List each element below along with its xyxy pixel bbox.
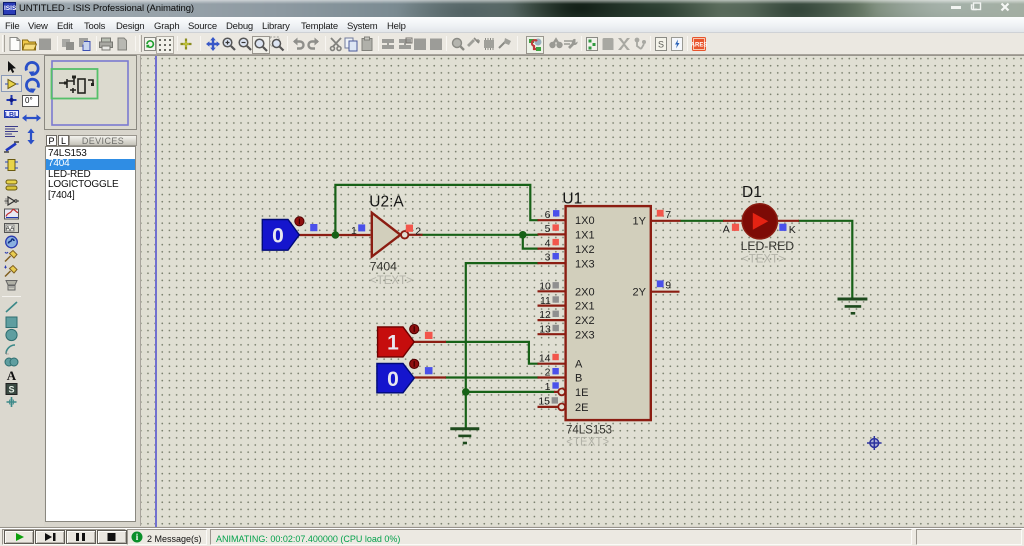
svg-text:U2:A: U2:A: [369, 193, 404, 210]
svg-text:1Y: 1Y: [633, 216, 647, 228]
svg-text:15: 15: [538, 396, 550, 408]
svg-text:4: 4: [545, 237, 551, 249]
svg-text:1X0: 1X0: [575, 215, 595, 227]
svg-text:<TEXT>: <TEXT>: [742, 254, 785, 266]
svg-text:<TEXT>: <TEXT>: [566, 436, 609, 448]
svg-text:2: 2: [545, 367, 551, 379]
svg-text:1: 1: [387, 332, 399, 355]
svg-text:A: A: [7, 368, 17, 382]
svg-text:2Y: 2Y: [633, 287, 647, 299]
svg-text:0: 0: [272, 225, 284, 248]
svg-text:12: 12: [539, 309, 551, 321]
svg-text:2X3: 2X3: [575, 329, 595, 341]
svg-text:2: 2: [415, 226, 421, 238]
svg-text:1X3: 1X3: [575, 258, 595, 270]
svg-text:LBL: LBL: [5, 112, 19, 119]
svg-text:2X2: 2X2: [575, 315, 595, 327]
svg-text:11: 11: [540, 295, 551, 307]
svg-text:1X1: 1X1: [575, 230, 595, 242]
svg-text:1: 1: [351, 225, 357, 237]
svg-text:2X0: 2X0: [575, 286, 595, 298]
svg-text:S: S: [658, 40, 664, 50]
svg-text:U1: U1: [562, 190, 582, 207]
svg-text:B: B: [575, 373, 582, 385]
svg-text:14: 14: [539, 352, 551, 364]
svg-text:10: 10: [539, 281, 551, 293]
svg-text:K: K: [789, 224, 796, 236]
svg-text:9: 9: [665, 280, 671, 292]
svg-text:D1: D1: [742, 184, 762, 201]
svg-text:A: A: [723, 223, 730, 235]
svg-text:7404: 7404: [370, 259, 397, 273]
svg-text:1X2: 1X2: [575, 244, 595, 256]
svg-text:5: 5: [545, 223, 551, 235]
svg-text:0: 0: [387, 368, 399, 391]
svg-text:AA: AA: [6, 225, 15, 232]
svg-text:A: A: [575, 359, 583, 371]
svg-text:1: 1: [545, 381, 551, 393]
svg-text:13: 13: [539, 323, 551, 335]
svg-text:LED-RED: LED-RED: [741, 239, 795, 253]
svg-text:ARES: ARES: [691, 43, 707, 49]
svg-text:S: S: [8, 385, 14, 395]
svg-text:1E: 1E: [575, 387, 588, 399]
svg-text:3: 3: [545, 252, 551, 264]
svg-text:74LS153: 74LS153: [566, 425, 612, 437]
svg-text:7: 7: [665, 209, 671, 221]
svg-text:2X1: 2X1: [575, 301, 595, 313]
svg-text:2E: 2E: [575, 402, 588, 414]
svg-text:<TEXT>: <TEXT>: [370, 275, 413, 287]
svg-text:6: 6: [545, 209, 551, 221]
